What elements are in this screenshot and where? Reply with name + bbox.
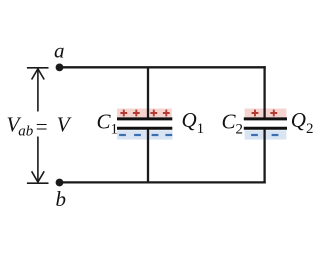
voltage arrow head up — [32, 69, 45, 80]
capacitor C1 bottom plate — [117, 127, 172, 130]
charge band negative C1 — [117, 130, 173, 139]
plus charges C2 — [252, 110, 278, 117]
svg-text:V: V — [57, 113, 72, 137]
svg-text:b: b — [56, 187, 67, 211]
label Vab = V — [7, 113, 72, 140]
minus charges C1 — [119, 134, 172, 136]
wire C1 branch upper — [147, 67, 149, 118]
plus charges C1 — [120, 110, 169, 117]
capacitor C2 bottom plate — [244, 127, 287, 130]
capacitor C2 top plate — [244, 117, 287, 120]
svg-text:ab: ab — [18, 124, 34, 140]
charge band positive C2 — [245, 109, 287, 118]
charge band positive C1 — [117, 109, 172, 118]
voltage arrow bottom tick — [27, 182, 49, 184]
svg-text:a: a — [54, 39, 65, 63]
minus charges C2 — [251, 134, 278, 136]
wire top bus a to right corner — [60, 66, 266, 68]
wire C2 branch upper — [263, 66, 265, 118]
voltage arrow shaft lower — [37, 137, 39, 182]
wire C1 branch lower — [147, 129, 149, 183]
wire bottom bus b to right corner — [60, 181, 266, 183]
node a terminal dot — [56, 64, 64, 72]
node b terminal dot — [56, 179, 64, 187]
voltage arrow top tick — [27, 67, 49, 69]
voltage arrow head down — [32, 171, 45, 182]
charge band negative C2 — [245, 130, 287, 139]
capacitor C1 top plate — [117, 117, 172, 120]
wire C2 branch lower — [263, 129, 265, 184]
svg-text:=: = — [36, 115, 48, 139]
voltage arrow shaft upper — [37, 70, 39, 112]
